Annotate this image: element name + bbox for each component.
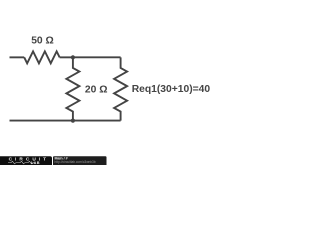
wire node A to top-right corner <box>73 56 121 58</box>
wire bottom <box>10 120 121 122</box>
svg-text:LAB: LAB <box>31 161 40 165</box>
resistor R3 Req1 vertical <box>114 57 127 120</box>
watermark text box: title and url <box>53 156 107 167</box>
svg-text:Req1(30+10)=40: Req1(30+10)=40 <box>132 84 211 95</box>
resistor R1 50Ω horizontal zigzag <box>24 51 59 63</box>
junction node A <box>71 55 75 59</box>
watermark logo box CircuitLab <box>0 156 52 167</box>
junction node B <box>71 119 75 123</box>
svg-text:20 Ω: 20 Ω <box>85 85 108 96</box>
svg-text:http://circuitlab.com/c3wnb3b: http://circuitlab.com/c3wnb3b <box>55 160 96 164</box>
wire R1 to node A <box>60 56 73 58</box>
resistor R2 20Ω vertical <box>66 57 79 120</box>
wire left terminal to R1 <box>10 56 25 58</box>
svg-text:50 Ω: 50 Ω <box>31 36 54 47</box>
